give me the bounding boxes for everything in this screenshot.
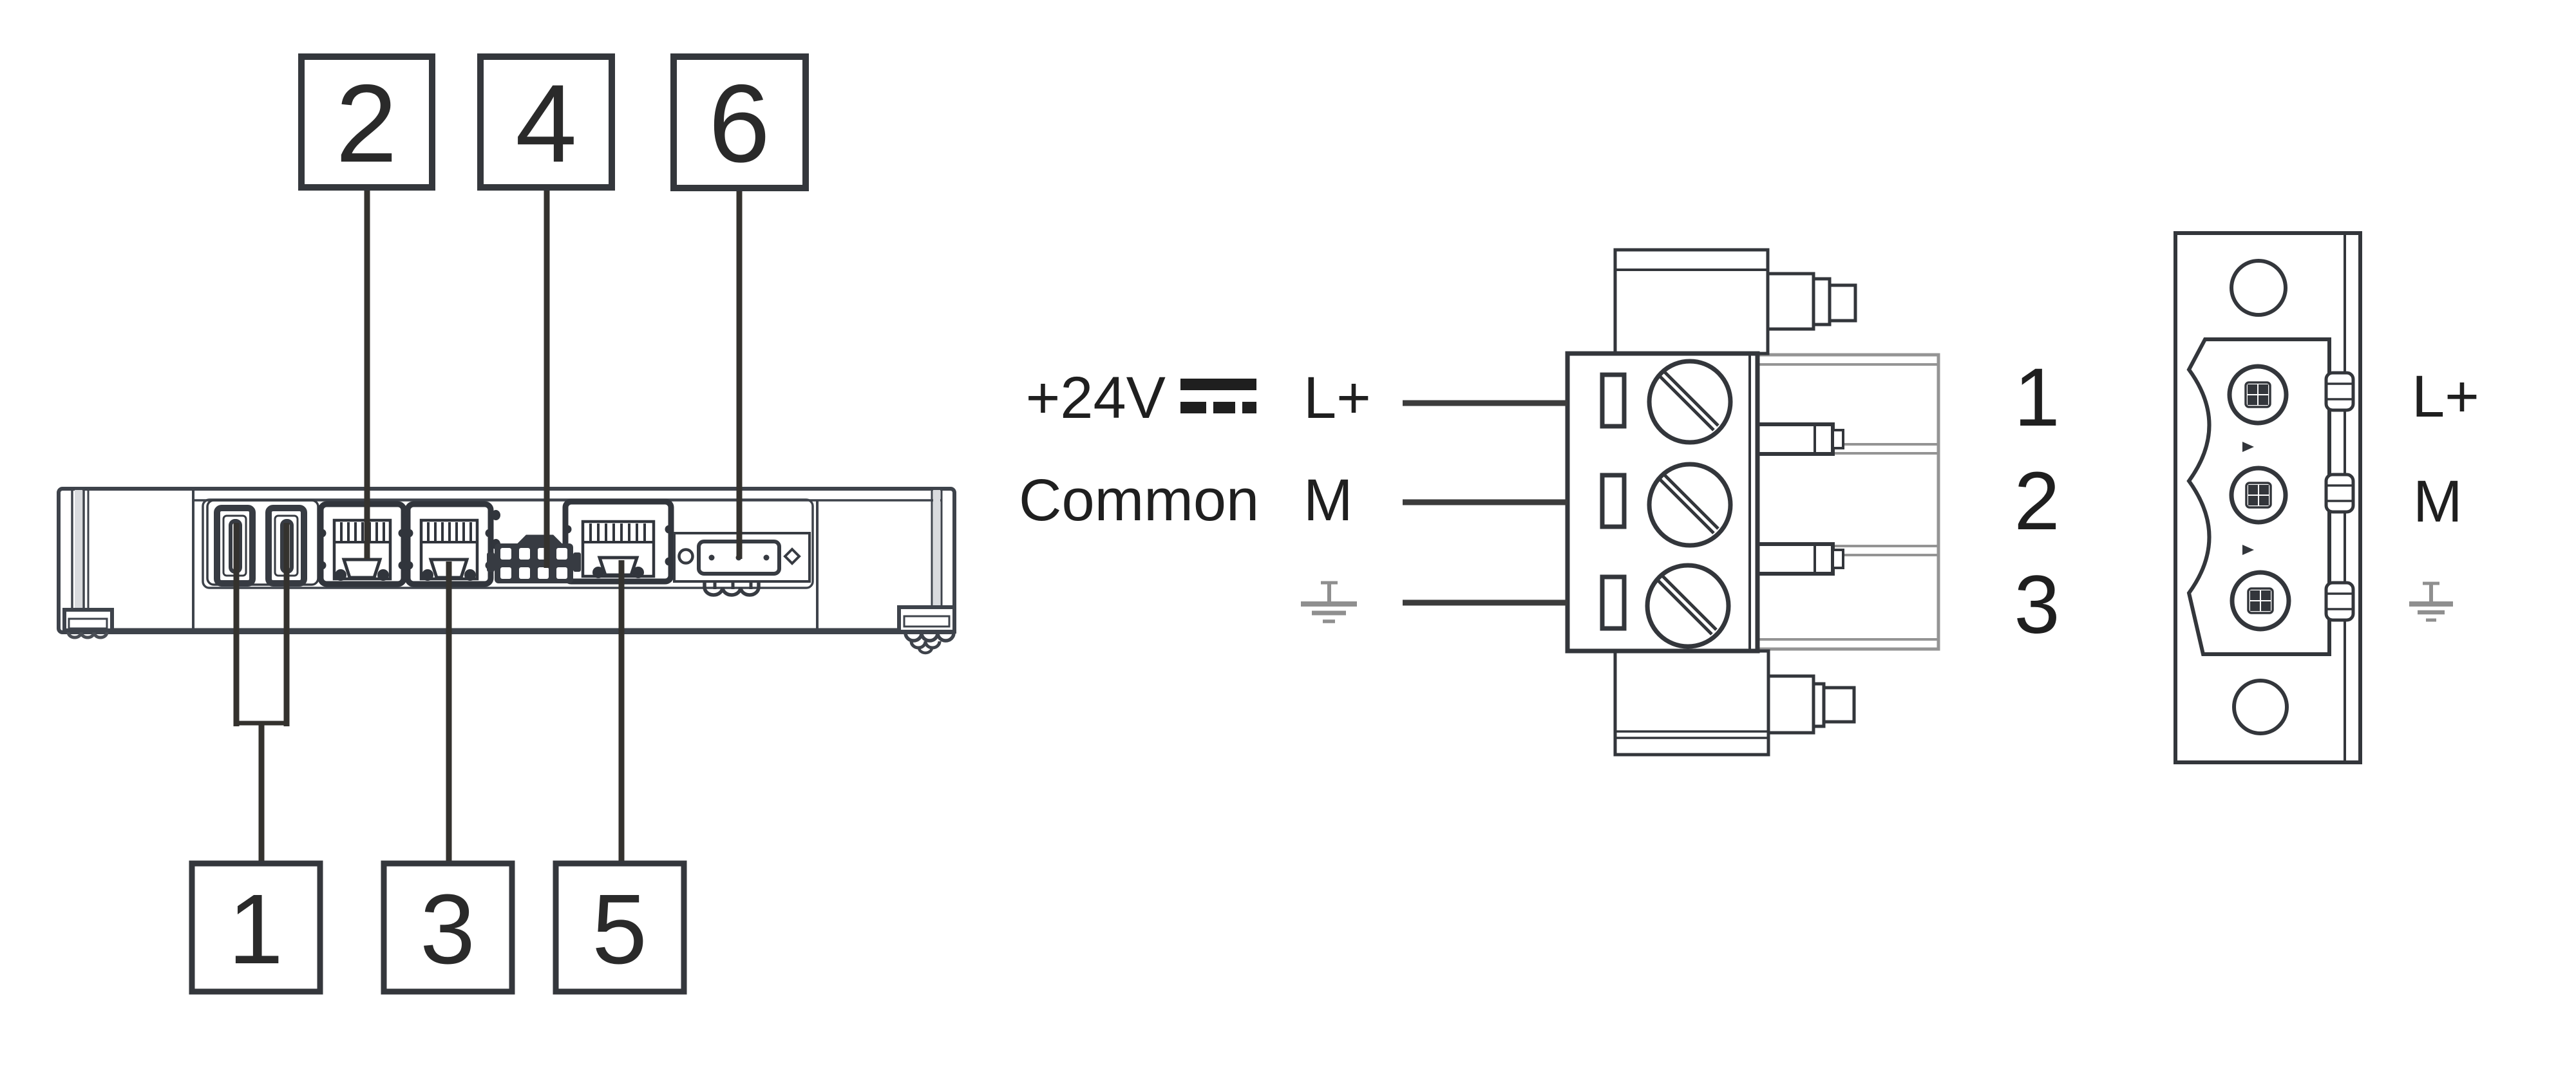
svg-text:4: 4: [515, 62, 577, 185]
svg-text:1: 1: [228, 874, 283, 985]
svg-text:M: M: [2413, 469, 2463, 534]
svg-text:2: 2: [336, 62, 397, 185]
svg-text:M: M: [1303, 467, 1353, 533]
svg-text:+24V: +24V: [1026, 365, 1166, 431]
svg-text:6: 6: [708, 62, 770, 185]
svg-text:2: 2: [2014, 455, 2060, 547]
svg-text:3: 3: [420, 874, 475, 985]
svg-text:L+: L+: [1303, 365, 1371, 431]
svg-text:L+: L+: [2412, 364, 2479, 429]
svg-text:1: 1: [2014, 352, 2060, 444]
svg-text:3: 3: [2014, 559, 2060, 651]
svg-text:5: 5: [592, 874, 647, 985]
svg-text:Common: Common: [1019, 467, 1259, 533]
